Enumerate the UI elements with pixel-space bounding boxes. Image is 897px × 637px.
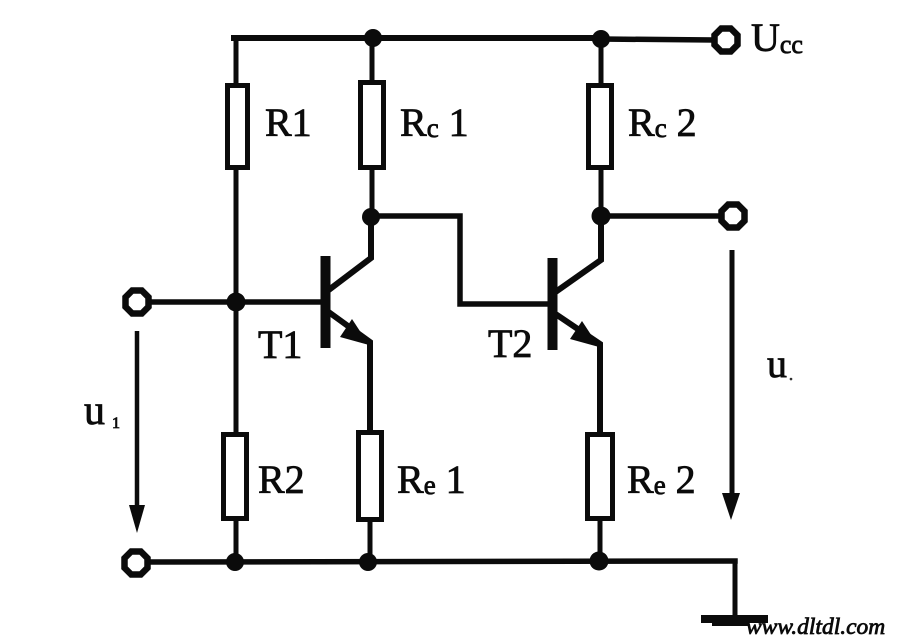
svg-text:T1: T1 bbox=[258, 322, 302, 367]
wire coupling T1 collector to T2 base bbox=[372, 216, 548, 304]
wire input terminal to T1 base bbox=[151, 299, 321, 305]
wire ground lead bbox=[733, 561, 738, 615]
wire bottom rail bbox=[151, 561, 735, 562]
wire output node to terminal bbox=[601, 213, 719, 219]
wire Rc1 bottom to node bbox=[370, 168, 375, 217]
arrow uo output bbox=[722, 250, 740, 520]
transistor T2 base bar bbox=[548, 258, 558, 350]
resistor Rc2 bbox=[589, 86, 612, 168]
wire T1 emitter bbox=[330, 313, 370, 434]
resistor R2 bbox=[224, 435, 247, 519]
terminal Ucc bbox=[715, 29, 738, 52]
node junction top rail right bbox=[592, 30, 610, 48]
svg-text:R1: R1 bbox=[265, 100, 312, 145]
resistor Re1 bbox=[359, 433, 382, 520]
wire Rc2 bottom to node bbox=[599, 168, 604, 216]
wire top supply rail bbox=[234, 35, 601, 41]
resistor Rc1 bbox=[361, 83, 384, 168]
svg-text:T2: T2 bbox=[488, 321, 532, 366]
resistor Re2 bbox=[588, 435, 613, 519]
node bottom rail Re2 bbox=[590, 552, 609, 571]
terminal bottom left bbox=[125, 552, 148, 575]
wire R1 bottom to input node bbox=[234, 168, 239, 302]
ground bbox=[701, 615, 768, 626]
wire Re1 bottom bbox=[368, 519, 373, 562]
wire R2 bottom bbox=[234, 519, 239, 562]
wire Rc1 top bbox=[370, 38, 375, 82]
arrow u1 input bbox=[129, 331, 145, 533]
node bottom rail R2 bbox=[226, 553, 244, 571]
wire T2 emitter bbox=[557, 315, 600, 434]
wire Rc2 top bbox=[599, 39, 604, 85]
node T1 collector bbox=[362, 208, 380, 226]
transistor T2 emitter arrow bbox=[570, 321, 599, 347]
terminal input bbox=[126, 291, 149, 314]
transistor T1 emitter arrow bbox=[340, 319, 369, 345]
transistor T1 base bar bbox=[321, 256, 331, 348]
wire Re2 bottom bbox=[598, 519, 603, 562]
terminal output bbox=[722, 205, 745, 228]
svg-text:R2: R2 bbox=[258, 457, 305, 502]
wire rail to Ucc terminal bbox=[601, 39, 712, 40]
node input / R1-R2 bbox=[227, 293, 246, 312]
wire input node to R2 top bbox=[234, 302, 239, 434]
wire T2 collector bbox=[557, 216, 601, 291]
wire R1 top bbox=[234, 38, 239, 85]
node T2 collector / output bbox=[592, 207, 611, 226]
node junction top rail left bbox=[364, 29, 382, 47]
wire T1 collector bbox=[330, 217, 371, 289]
node bottom rail Re1 bbox=[359, 553, 377, 571]
resistor R1 bbox=[228, 86, 248, 168]
svg-text:www.dltdl.com: www.dltdl.com bbox=[746, 614, 885, 637]
